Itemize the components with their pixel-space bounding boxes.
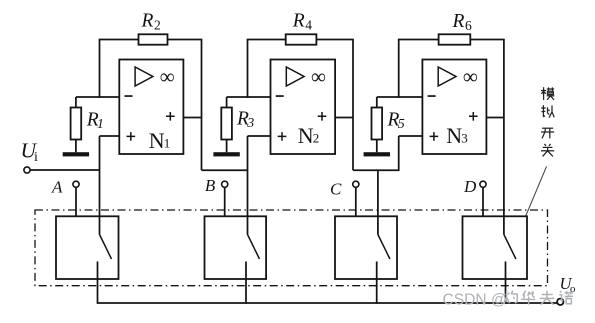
wire bbox=[470, 39, 504, 41]
wire feedback left N3 bbox=[398, 40, 400, 98]
wire N1 output to stage 2 bbox=[202, 169, 248, 171]
switch blade D bbox=[504, 235, 516, 260]
analog switch enclosure (dash-dot) bbox=[35, 210, 548, 286]
switch D bbox=[463, 216, 528, 279]
wire bbox=[316, 39, 353, 41]
resistor R3 bbox=[226, 97, 228, 108]
resistor R5 bbox=[376, 97, 378, 108]
resistor R1 bbox=[75, 97, 77, 108]
wire output feedback / descender N3 bbox=[503, 40, 505, 235]
wire bbox=[398, 39, 439, 41]
wire inverting input N2 bbox=[227, 96, 271, 98]
svg-text:D: D bbox=[463, 177, 477, 196]
wire inverting input N1 bbox=[76, 96, 119, 98]
svg-text:N: N bbox=[446, 123, 462, 148]
switch blade B bbox=[248, 235, 260, 260]
wire bbox=[168, 39, 203, 41]
op-amp N2 bbox=[271, 60, 336, 155]
wire riser N3 input bbox=[398, 136, 400, 171]
wire output bus bbox=[98, 302, 558, 304]
wire switch B output bbox=[245, 262, 247, 304]
ground under R5 bbox=[364, 152, 390, 156]
switch A bbox=[56, 216, 119, 279]
svg-text:∞: ∞ bbox=[311, 65, 326, 89]
wire switch D output bbox=[505, 262, 507, 304]
svg-text:N: N bbox=[298, 123, 314, 148]
svg-text:1: 1 bbox=[97, 117, 104, 132]
wire output N2 bbox=[335, 117, 353, 119]
svg-text:4: 4 bbox=[305, 18, 312, 33]
svg-text:C: C bbox=[330, 180, 342, 199]
ground under R3 bbox=[213, 152, 239, 156]
svg-text:2: 2 bbox=[154, 18, 161, 33]
wire non-inverting input N3 bbox=[399, 135, 423, 137]
op-amp N1 bbox=[119, 60, 183, 155]
ground under R1 bbox=[63, 152, 89, 156]
svg-text:1: 1 bbox=[164, 136, 171, 151]
node Uo terminal bbox=[557, 299, 563, 305]
node Ui terminal bbox=[24, 167, 30, 173]
wire output N3 bbox=[486, 117, 504, 119]
op-amp N3 bbox=[422, 60, 486, 155]
wire bbox=[247, 39, 286, 41]
svg-text:A: A bbox=[51, 178, 63, 197]
svg-text:3: 3 bbox=[246, 116, 254, 131]
wire output feedback / descender N2 bbox=[352, 40, 354, 171]
watermark CJK bbox=[506, 291, 508, 298]
wire feedback left N1 bbox=[99, 40, 101, 98]
svg-text:R: R bbox=[452, 11, 465, 32]
svg-text:5: 5 bbox=[398, 117, 405, 132]
wire N2 output to stage 3 bbox=[353, 169, 399, 171]
svg-text:B: B bbox=[205, 176, 216, 195]
wire output N1 bbox=[183, 117, 201, 119]
svg-text:i: i bbox=[34, 150, 38, 165]
wire inverting input N3 bbox=[377, 96, 423, 98]
wire bbox=[99, 39, 139, 41]
wire riser to switch A bbox=[99, 136, 101, 235]
svg-text:N: N bbox=[149, 128, 165, 153]
svg-text:∞: ∞ bbox=[463, 65, 478, 89]
svg-text:R: R bbox=[141, 11, 154, 32]
resistor R4 bbox=[286, 34, 317, 44]
wire non-inverting input N1 bbox=[100, 135, 120, 137]
resistor R6 bbox=[439, 34, 471, 44]
wire feedback left N2 bbox=[247, 40, 249, 98]
wire switch A output bbox=[97, 262, 99, 304]
svg-text:3: 3 bbox=[461, 131, 468, 146]
wire switch C output bbox=[376, 262, 378, 304]
switch B bbox=[205, 216, 267, 279]
label analog switch (vertical CJK) bbox=[541, 90, 546, 92]
svg-text:6: 6 bbox=[465, 18, 472, 33]
svg-text:∞: ∞ bbox=[160, 65, 175, 89]
svg-text:2: 2 bbox=[313, 131, 320, 146]
resistor R2 bbox=[139, 34, 168, 44]
wire riser to switch B bbox=[247, 136, 249, 235]
svg-text:R: R bbox=[292, 11, 305, 32]
svg-text:CSDN @: CSDN @ bbox=[443, 292, 507, 309]
wire tap to switch C bbox=[377, 170, 379, 234]
wire output feedback / descender N1 bbox=[201, 40, 203, 171]
switch blade A bbox=[100, 235, 112, 260]
wire Ui input bbox=[30, 169, 99, 171]
switch blade C bbox=[378, 235, 390, 260]
wire non-inverting input N2 bbox=[248, 135, 271, 137]
leader line to enclosure bbox=[526, 167, 547, 217]
switch C bbox=[335, 216, 397, 279]
